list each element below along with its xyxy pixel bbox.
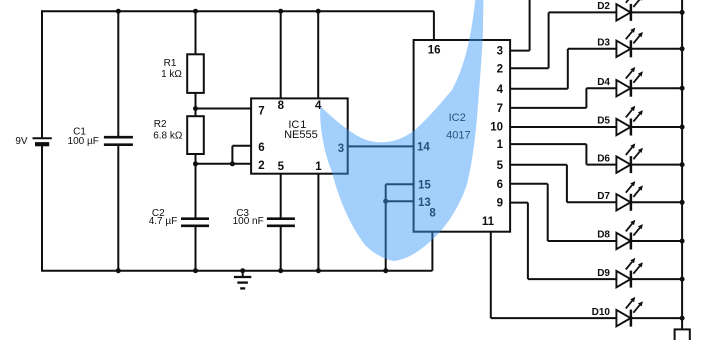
LED D5 (597, 106, 684, 136)
resistor R2 (153, 116, 204, 154)
wire: R2 bottom to pin 2 (196, 163, 252, 165)
wire: pin 2 to D2 (510, 67, 548, 69)
wire: pin 7 to D4 (510, 107, 586, 109)
wire: pin 10 to D5 (510, 126, 616, 128)
svg-text:D10: D10 (592, 307, 611, 318)
wire: pin 4 to supply (317, 11, 319, 98)
capacitor C3 (233, 208, 295, 227)
wire: pin 9 to D9 (510, 202, 528, 204)
IC1 label (284, 119, 318, 141)
svg-text:R1: R1 (164, 58, 177, 69)
LED D7 (597, 181, 684, 211)
IC2 label (446, 112, 470, 141)
capacitor C1 (68, 127, 133, 147)
node: R1/R2 junction (193, 106, 198, 111)
wire: supply to 4017 pin16 (433, 11, 435, 40)
svg-text:16: 16 (428, 45, 441, 57)
wire: C1 branch (117, 11, 119, 137)
wire: ground bottom rail (42, 270, 432, 272)
wire: LED cathode rail (right) (681, 0, 683, 329)
wire: R1 top feed (195, 11, 197, 54)
node: R2/C2/pin2 junction (193, 161, 198, 166)
wire: R1/R2 junction to pin 7 (196, 108, 252, 110)
resistor R1 (161, 54, 204, 93)
svg-text:6.8 kΩ: 6.8 kΩ (153, 130, 183, 141)
wire: R2 bottom to C2 (195, 154, 197, 219)
svg-text:3: 3 (497, 46, 503, 58)
svg-text:D9: D9 (597, 268, 610, 279)
wire: pin 8 to supply (280, 11, 282, 98)
svg-text:4.7 µF: 4.7 µF (149, 216, 178, 227)
node: supply rail junctions (116, 9, 121, 14)
svg-text:10: 10 (490, 122, 503, 134)
svg-text:4: 4 (497, 84, 504, 96)
wire: pin 3 to D1 (off-frame) (510, 50, 529, 52)
LED D4 (597, 67, 684, 97)
svg-text:D7: D7 (597, 191, 610, 202)
svg-text:8: 8 (278, 100, 285, 112)
resistor R11 (current limiting, partly off-frame) (675, 329, 690, 340)
svg-text:5: 5 (278, 161, 285, 173)
svg-text:1 kΩ: 1 kΩ (161, 69, 182, 80)
svg-text:9V: 9V (15, 136, 28, 147)
wire: 4017 pin13 to ground (386, 200, 414, 202)
node: pin13/15 tie junction (383, 199, 388, 204)
svg-text:D4: D4 (597, 77, 610, 88)
watermark swoosh (320, 0, 483, 261)
LED D8 (597, 220, 684, 250)
wire: pin 1 to ground rail (317, 174, 319, 271)
svg-text:7: 7 (497, 103, 503, 115)
svg-text:D3: D3 (597, 38, 610, 49)
wire: +9V top supply rail (42, 10, 434, 12)
LED D2 (597, 0, 684, 21)
svg-text:1: 1 (497, 139, 504, 151)
wire: R1-R2 link (195, 93, 197, 116)
wire: pin 1 to D6 (510, 143, 586, 145)
svg-text:100 nF: 100 nF (233, 216, 264, 227)
svg-text:D6: D6 (597, 153, 610, 164)
svg-text:6: 6 (497, 179, 503, 191)
battery BT1 9V (15, 136, 51, 147)
svg-text:2: 2 (258, 160, 264, 172)
wire: pin 6 step (232, 145, 251, 147)
counter IC2 4017 box (414, 40, 511, 232)
node: ground rail junctions (116, 268, 121, 273)
LED D10 (592, 297, 685, 327)
svg-text:11: 11 (482, 216, 495, 228)
svg-text:100 µF: 100 µF (68, 136, 99, 147)
svg-text:1: 1 (315, 161, 322, 173)
svg-text:NE555: NE555 (284, 129, 318, 141)
wire: pin 5 to C3 (280, 174, 282, 219)
wire: pin 6 to D8 (510, 183, 548, 185)
ground (234, 271, 251, 289)
svg-text:7: 7 (258, 106, 264, 118)
LED D9 (597, 258, 684, 288)
LED D3 (597, 28, 684, 58)
op-amp/timer IC1 NE555 box (251, 98, 348, 173)
svg-text:D2: D2 (597, 1, 610, 12)
wire: NE555 pin3 to 4017 pin14 (348, 145, 414, 147)
wire: left battery branch (41, 10, 43, 137)
wire: pin 5 to D7 (510, 164, 567, 166)
capacitor C2 (149, 208, 209, 227)
svg-text:R2: R2 (154, 119, 167, 130)
svg-text:D5: D5 (597, 116, 610, 127)
wire: pin 11 to D10 (490, 232, 492, 318)
wire: pin 4 to D3 (510, 88, 568, 90)
wire: 4017 pin8 to ground rail (431, 232, 433, 271)
wire: 4017 pin15 tie (386, 183, 414, 185)
node: pin6 tie junction (230, 161, 235, 166)
svg-text:6: 6 (258, 142, 264, 154)
svg-text:2: 2 (497, 63, 503, 75)
svg-text:5: 5 (497, 160, 504, 172)
svg-text:D8: D8 (597, 230, 610, 241)
LED D6 (597, 143, 684, 173)
svg-text:9: 9 (497, 198, 503, 210)
